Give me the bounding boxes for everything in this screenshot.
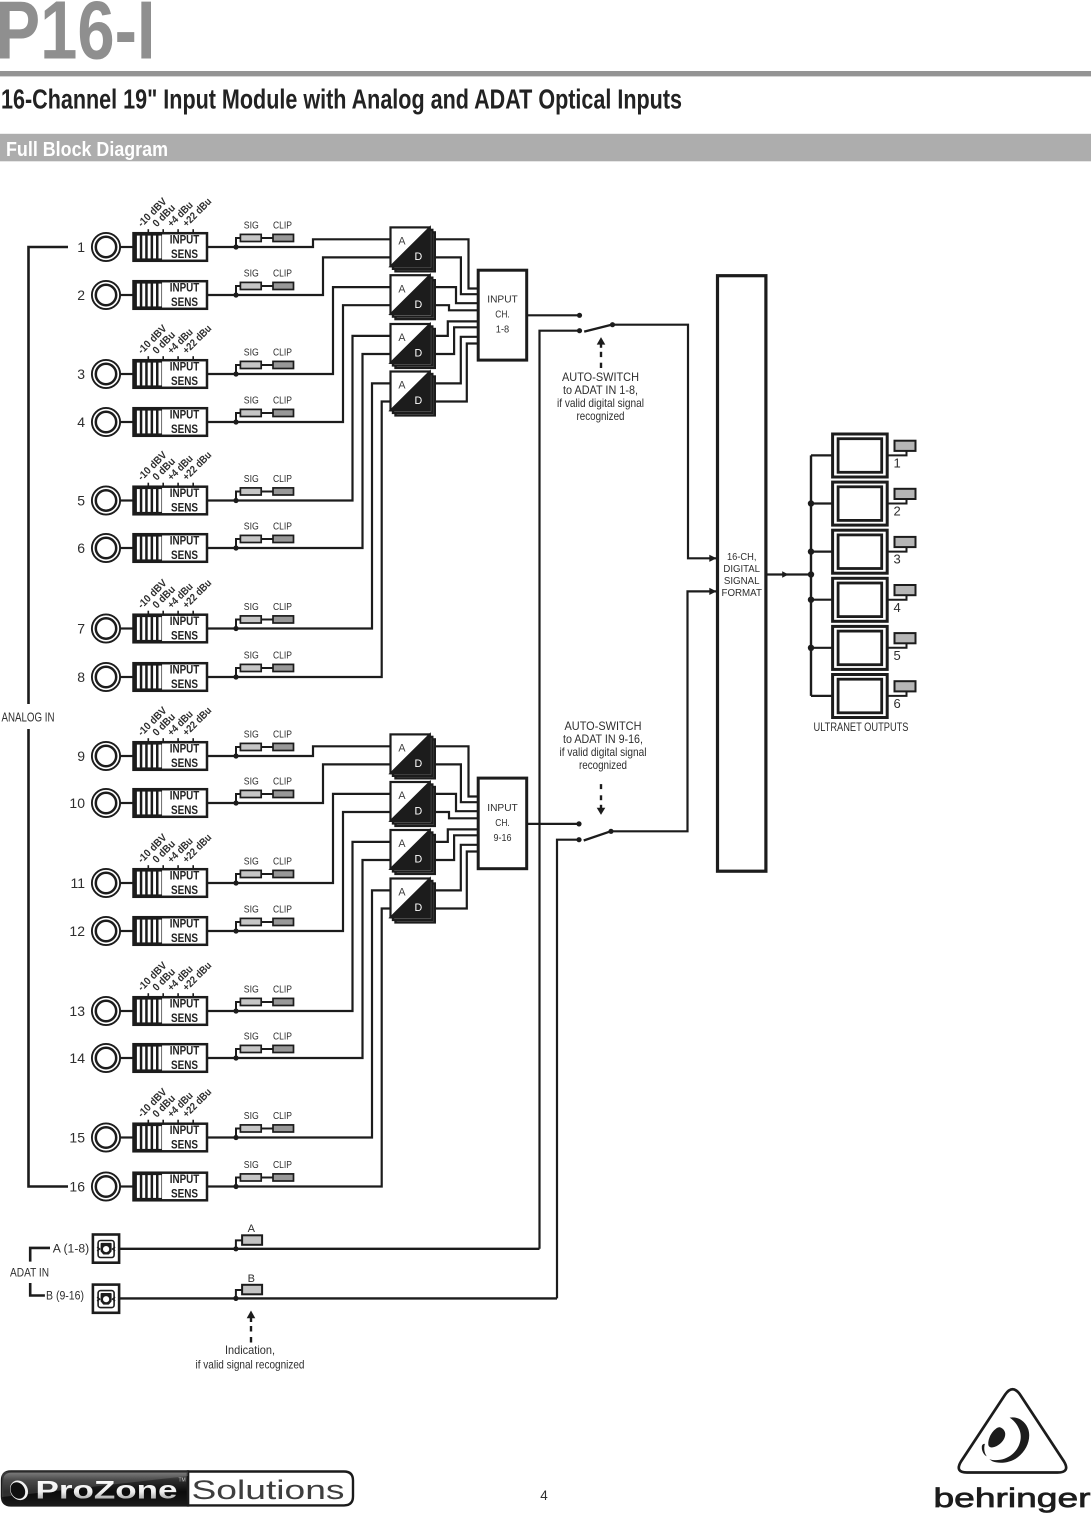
dashed arrow indication [247,1311,256,1319]
switch SW1 lever [584,325,612,332]
A/D converter U3 [391,324,435,368]
svg-text:1: 1 [77,239,85,255]
svg-text:SIG: SIG [244,220,259,231]
node junction channel 15 [233,1135,238,1140]
wire channel 15 to A/D converter [236,890,391,1137]
wire SIG to CLIP channel 8 [261,667,273,669]
svg-text:AUTO-SWITCH: AUTO-SWITCH [562,370,639,384]
wire SIG to CLIP channel 1 [261,237,273,239]
node switch 2 throw (ADAT) [576,837,581,842]
wire output 4 to LED [887,595,906,600]
wire A/D U6 output 2 to INPUT CH box [435,812,478,818]
wire SIG to CLIP channel 9 [261,746,273,748]
svg-text:if valid digital signal: if valid digital signal [560,745,647,759]
arrowhead on output wire [782,571,788,578]
wire jack 13 to INPUT SENS [121,1010,134,1012]
svg-text:A (1-8): A (1-8) [53,1241,89,1255]
node junction channel 5 [233,498,238,503]
wire jack 11 to INPUT SENS [121,882,134,884]
svg-text:CLIP: CLIP [273,521,292,532]
scale ticks channel 3 [147,356,149,360]
svg-text:CH.: CH. [495,310,510,321]
svg-text:CLIP: CLIP [273,220,292,231]
svg-text:CLIP: CLIP [273,474,292,485]
svg-text:D: D [415,395,423,407]
LED output 3 [895,537,916,547]
svg-text:SIG: SIG [244,602,259,613]
scale ticks channel 7 [147,611,149,615]
gain switch INPUT SENS channel 15 [134,1124,208,1152]
node junction channel 13 [233,1008,238,1013]
svg-text:INPUT: INPUT [170,1043,200,1057]
svg-text:SENS: SENS [171,677,198,691]
TOSLINK connector ADAT A [93,1235,119,1263]
scale ticks channel 13 [147,993,149,997]
wire switch 1 to 16-CH block [613,325,717,559]
wire channel 9 to A/D converter [236,746,391,756]
LED output 6 [895,681,916,691]
svg-text:D: D [415,348,423,360]
svg-text:CLIP: CLIP [273,650,292,661]
svg-text:INPUT: INPUT [170,741,200,755]
svg-text:INPUT: INPUT [487,803,518,814]
node junction channel 9 [233,753,238,758]
svg-text:SIG: SIG [244,904,259,915]
LED ADAT A [242,1235,262,1245]
LED ADAT B [242,1285,262,1295]
LED output 5 [895,633,916,643]
wire SIG to CLIP channel 4 [261,412,273,414]
logo ProZone Solutions [2,1472,353,1506]
svg-text:CH.: CH. [495,818,510,829]
svg-text:SENS: SENS [171,422,198,436]
node junction channel 14 [233,1055,238,1060]
wire output 6 to LED [887,691,906,696]
A/D converter U2 [391,275,435,319]
gain switch INPUT SENS channel 16 [134,1173,208,1201]
A/D converter U8 [391,879,435,923]
A/D converter U5 [391,734,435,778]
wire ADAT B riser to switch 2 [557,840,579,1299]
scale ticks channel 9 [147,738,149,742]
wire channel 4 to A/D converter [236,305,391,422]
wire A/D U8 output 1 to INPUT CH box [435,845,478,891]
ultranet output connector 1 [833,434,888,477]
svg-text:Full Block Diagram: Full Block Diagram [6,139,168,161]
wire INPUT SENS 16 to node [207,1185,236,1187]
wire SIG to CLIP channel 10 [261,793,273,795]
wire A/D U1 output 2 to INPUT CH box [435,257,478,294]
net ANALOG IN bracket [29,247,69,704]
wire jack 16 to INPUT SENS [121,1185,134,1187]
svg-text:CLIP: CLIP [273,984,292,995]
svg-text:SIG: SIG [244,650,259,661]
wire bus to ultranet output 3 [811,550,833,552]
wire A/D U2 output 1 to INPUT CH box [435,287,478,303]
wire channel 2 to A/D converter [236,257,391,295]
svg-text:CLIP: CLIP [273,602,292,613]
wire bus to ultranet output 1 [811,454,833,456]
wire INPUT SENS 11 to node [207,882,236,884]
wire bus to ultranet output 6 [811,695,833,697]
svg-text:SENS: SENS [171,931,198,945]
svg-text:D: D [415,251,423,263]
section banner Full Block Diagram [0,134,1091,162]
TOSLINK connector ADAT B [93,1285,119,1313]
LED output 2 [895,489,916,499]
wire channel 7 to A/D converter [236,383,391,628]
svg-text:2: 2 [77,287,85,303]
scale ticks channel 15 [147,1120,149,1124]
svg-text:INPUT: INPUT [170,486,200,500]
svg-text:SENS: SENS [171,1011,198,1025]
gain switch INPUT SENS channel 8 [134,663,208,691]
node output bus junction [808,571,814,577]
svg-text:16-CH,: 16-CH, [727,552,757,563]
svg-text:SIG: SIG [244,395,259,406]
svg-text:6: 6 [894,696,901,711]
scale ticks channel 1 [147,229,149,233]
svg-text:SENS: SENS [171,247,198,261]
svg-text:8: 8 [77,669,85,685]
gain switch INPUT SENS channel 10 [134,789,208,817]
svg-text:D: D [415,299,423,311]
wire channel 1 to A/D converter [236,239,391,247]
wire jack 1 to INPUT SENS [121,246,134,248]
svg-text:6: 6 [77,540,85,556]
wire A/D U7 output 2 to INPUT CH box [435,835,478,860]
svg-text:CLIP: CLIP [273,1160,292,1171]
svg-text:SIG: SIG [244,1031,259,1042]
svg-text:Solutions: Solutions [192,1475,345,1505]
node junction channel 3 [233,371,238,376]
svg-text:INPUT: INPUT [170,359,200,373]
node junction channel 16 [233,1184,238,1189]
svg-text:SIG: SIG [244,984,259,995]
wire ultranet distribution bus [810,455,812,696]
wire A/D U8 output 2 to INPUT CH box [435,852,478,909]
svg-text:9: 9 [77,748,85,764]
gain switch INPUT SENS channel 1 [134,233,208,261]
wire to LED B [236,1290,242,1298]
svg-text:SENS: SENS [171,1058,198,1072]
wire jack 4 to INPUT SENS [121,421,134,423]
svg-text:CLIP: CLIP [273,347,292,358]
wire jack 3 to INPUT SENS [121,373,134,375]
wire jack 9 to INPUT SENS [121,755,134,757]
wire A/D U2 output 2 to INPUT CH box [435,305,478,310]
wire SIG to CLIP channel 2 [261,285,273,287]
wire channel 16 to A/D converter [236,909,391,1187]
svg-text:INPUT: INPUT [170,662,200,676]
svg-text:INPUT: INPUT [170,1123,200,1137]
svg-text:SENS: SENS [171,1137,198,1151]
svg-text:SENS: SENS [171,1186,198,1200]
node bus junction output 2 [808,500,814,506]
svg-text:INPUT: INPUT [170,996,200,1010]
wire channel 3 to A/D converter [236,287,391,374]
svg-text:Indication,: Indication, [225,1343,275,1357]
svg-text:3: 3 [77,366,85,382]
svg-text:CLIP: CLIP [273,904,292,915]
wire switch 2 to 16-CH block [611,591,717,831]
wire ADAT B [119,1297,557,1299]
svg-text:A: A [398,236,406,248]
svg-text:3: 3 [894,552,901,567]
svg-text:ANALOG IN: ANALOG IN [2,711,55,725]
scale ticks channel 11 [147,865,149,869]
wire INPUT SENS 5 to node [207,499,236,501]
node junction channel 8 [233,674,238,679]
svg-text:SIG: SIG [244,729,259,740]
wire INPUT SENS 9 to node [207,755,236,757]
wire channel 8 to A/D converter [236,402,391,678]
dashed arrow auto-switch 1 [600,363,602,368]
ultranet output connector 6 [833,675,888,718]
wire A/D U1 output 1 to INPUT CH box [435,239,478,288]
svg-text:16-Channel 19" Input Module wi: 16-Channel 19" Input Module with Analog … [1,84,682,115]
node switch 1 throw (analog) [577,313,582,318]
svg-text:SIG: SIG [244,1111,259,1122]
svg-text:CLIP: CLIP [273,1031,292,1042]
svg-text:CLIP: CLIP [273,856,292,867]
wire ADAT A [119,1248,539,1250]
wire jack 7 to INPUT SENS [121,627,134,629]
block 16-CH DIGITAL SIGNAL FORMAT [718,276,766,872]
wire SIG to CLIP channel 13 [261,1001,273,1003]
node junction channel 11 [233,880,238,885]
svg-text:INPUT: INPUT [170,916,200,930]
svg-text:1-8: 1-8 [496,325,510,336]
gain switch INPUT SENS channel 9 [134,742,208,770]
svg-text:A: A [398,332,406,344]
svg-text:CLIP: CLIP [273,1111,292,1122]
svg-text:9-16: 9-16 [494,833,512,844]
wire INPUT SENS 2 to node [207,294,236,296]
svg-text:CLIP: CLIP [273,729,292,740]
wire SIG to CLIP channel 15 [261,1128,273,1130]
node junction channel 1 [233,244,238,249]
svg-text:CLIP: CLIP [273,395,292,406]
svg-text:D: D [415,902,423,914]
A/D converter U7 [391,830,435,874]
svg-text:CLIP: CLIP [273,776,292,787]
wire SIG to CLIP channel 16 [261,1177,273,1179]
wire INPUT CH 9-16 output [527,823,579,825]
svg-text:A: A [398,743,406,755]
wire A/D U4 output 1 to INPUT CH box [435,337,478,384]
wire INPUT SENS 1 to node [207,246,236,248]
svg-text:A: A [248,1223,256,1235]
svg-text:4: 4 [894,600,901,615]
gain switch INPUT SENS channel 3 [134,360,208,388]
svg-text:ProZone: ProZone [36,1476,178,1504]
svg-text:SIG: SIG [244,347,259,358]
gain switch INPUT SENS channel 13 [134,997,208,1025]
svg-text:if valid signal recognized: if valid signal recognized [196,1358,305,1372]
wire jack 12 to INPUT SENS [121,930,134,932]
wire INPUT SENS 12 to node [207,930,236,932]
wire A/D U4 output 2 to INPUT CH box [435,344,478,402]
svg-text:A: A [398,790,406,802]
node junction channel 12 [233,928,238,933]
svg-text:15: 15 [69,1130,85,1146]
node switch 2 throw (analog) [576,821,581,826]
wire channel 13 to A/D converter [236,842,391,1011]
wire channel 10 to A/D converter [236,764,391,803]
A/D converter U1 [391,227,435,271]
gain switch INPUT SENS channel 11 [134,869,208,897]
svg-text:INPUT: INPUT [170,232,200,246]
svg-text:INPUT: INPUT [170,1172,200,1186]
svg-text:TM: TM [179,1478,186,1484]
wire output 3 to LED [887,547,906,552]
wire SIG to CLIP channel 14 [261,1048,273,1050]
wire jack 5 to INPUT SENS [121,499,134,501]
svg-text:ADAT IN: ADAT IN [10,1266,49,1280]
svg-text:if valid digital signal: if valid digital signal [557,396,644,410]
node switch 1 pole [610,322,615,327]
wire INPUT SENS 6 to node [207,547,236,549]
svg-text:SENS: SENS [171,628,198,642]
wire SIG to CLIP channel 3 [261,364,273,366]
block INPUT CH. 9-16 [478,778,527,869]
block INPUT CH. 1-8 [478,270,527,360]
svg-text:INPUT: INPUT [170,280,200,294]
wire SIG to CLIP channel 11 [261,873,273,875]
svg-text:D: D [415,806,423,818]
svg-text:recognized: recognized [577,409,625,423]
svg-text:SIG: SIG [244,474,259,485]
svg-text:INPUT: INPUT [170,868,200,882]
svg-text:16: 16 [69,1179,85,1195]
wire A/D U3 output 2 to INPUT CH box [435,327,478,354]
node junction channel 7 [233,626,238,631]
svg-text:SIGNAL: SIGNAL [724,576,760,587]
svg-text:B (9-16): B (9-16) [46,1289,84,1303]
node switch 1 throw (ADAT) [577,328,582,333]
wire channel 6 to A/D converter [236,354,391,548]
svg-text:2: 2 [894,504,901,519]
wire A/D U5 output 2 to INPUT CH box [435,764,478,802]
node junction channel 10 [233,800,238,805]
node bus junction output 3 [808,548,814,554]
wire output 1 to LED [887,451,906,456]
svg-text:10: 10 [69,795,85,811]
svg-text:DIGITAL: DIGITAL [723,564,760,575]
ultranet output connector 3 [833,530,888,573]
ultranet output connector 4 [833,578,888,621]
svg-text:SIG: SIG [244,1160,259,1171]
wire bus to ultranet output 4 [811,599,833,601]
wire SIG to CLIP channel 5 [261,491,273,493]
svg-text:A: A [398,283,406,295]
LED output 1 [895,441,916,451]
svg-text:4: 4 [540,1488,548,1503]
wire SIG to CLIP channel 6 [261,538,273,540]
scale ticks channel 5 [147,483,149,487]
node switch 2 pole [608,829,613,834]
switch SW2 lever [584,831,611,840]
wire jack 8 to INPUT SENS [121,676,134,678]
wire INPUT CH 1-8 output [527,314,580,316]
svg-text:INPUT: INPUT [487,295,518,306]
svg-text:5: 5 [894,648,901,663]
svg-text:SENS: SENS [171,295,198,309]
svg-text:13: 13 [69,1003,85,1019]
logo behringer [934,1389,1091,1513]
svg-text:11: 11 [70,875,85,891]
wire output 2 to LED [887,499,906,504]
wire jack 6 to INPUT SENS [121,547,134,549]
svg-text:7: 7 [77,621,85,637]
wire INPUT SENS 3 to node [207,373,236,375]
wire jack 10 to INPUT SENS [121,802,134,804]
wire INPUT SENS 14 to node [207,1057,236,1059]
A/D converter U6 [391,782,435,826]
wire to LED A [236,1240,242,1248]
svg-text:INPUT: INPUT [170,788,200,802]
gain switch INPUT SENS channel 7 [134,615,208,643]
svg-text:SENS: SENS [171,803,198,817]
svg-text:SIG: SIG [244,521,259,532]
svg-text:D: D [415,758,423,770]
gain switch INPUT SENS channel 5 [134,487,208,515]
svg-text:12: 12 [69,923,85,939]
wire SIG to CLIP channel 7 [261,619,273,621]
svg-text:4: 4 [77,414,85,430]
wire ADAT A riser to switch 1 [540,331,580,1249]
svg-text:CLIP: CLIP [273,268,292,279]
wire bus to ultranet output 2 [811,502,833,504]
wire INPUT SENS 15 to node [207,1136,236,1138]
wire INPUT SENS 8 to node [207,676,236,678]
ultranet output connector 2 [833,482,888,525]
wire channel 5 to A/D converter [236,336,391,501]
wire SIG to CLIP channel 12 [261,921,273,923]
node bus junction output 4 [808,597,814,603]
wire channel 14 to A/D converter [236,860,391,1058]
svg-text:1: 1 [894,456,901,471]
wire 16-CH block output [766,573,811,575]
wire jack 14 to INPUT SENS [121,1057,134,1059]
dashed arrow auto-switch 2 [600,784,602,789]
node ADAT B junction [233,1296,238,1301]
node junction channel 2 [233,292,238,297]
svg-text:D: D [415,854,423,866]
wire output 5 to LED [887,643,906,648]
svg-text:A: A [398,838,406,850]
svg-text:ULTRANET OUTPUTS: ULTRANET OUTPUTS [814,720,909,734]
svg-text:SIG: SIG [244,856,259,867]
wire jack 15 to INPUT SENS [121,1136,134,1138]
svg-text:INPUT: INPUT [170,407,200,421]
svg-text:A: A [398,887,406,899]
gain switch INPUT SENS channel 12 [134,917,208,945]
svg-text:INPUT: INPUT [170,614,200,628]
svg-text:AUTO-SWITCH: AUTO-SWITCH [565,719,642,733]
arrowhead into 16-CH block (ch 1-8) [709,555,716,562]
svg-text:SENS: SENS [171,548,198,562]
svg-text:SENS: SENS [171,756,198,770]
wire A/D U3 output 1 to INPUT CH box [435,321,478,336]
svg-text:INPUT: INPUT [170,533,200,547]
svg-text:behringer: behringer [934,1483,1091,1513]
ultranet output connector 5 [833,626,888,669]
svg-text:SENS: SENS [171,374,198,388]
node junction channel 6 [233,545,238,550]
arrowhead into 16-CH block (ch 9-16) [709,588,716,595]
